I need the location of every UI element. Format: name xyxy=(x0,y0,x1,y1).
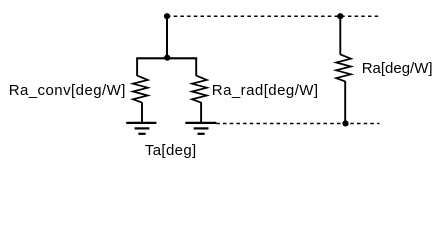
resistor Ra xyxy=(336,54,351,81)
ground (left, under Ra_conv) xyxy=(126,123,156,134)
wire: middle branch bottom lead xyxy=(200,102,202,123)
node A (top left junction dot) xyxy=(164,13,170,19)
node: junction dot on parallel bar xyxy=(164,55,170,61)
wire: horizontal parallel bar xyxy=(136,57,197,59)
ground (middle, under Ra_rad) xyxy=(185,123,216,134)
wire: vertical from node A down to parallel bar xyxy=(166,16,168,58)
svg-text:Ra[deg/W]: Ra[deg/W] xyxy=(362,60,433,77)
resistor Ra_rad xyxy=(192,76,207,103)
wire: right branch bottom lead xyxy=(344,81,346,123)
wire: right branch top lead from node B xyxy=(339,16,341,55)
wire: left branch bottom lead xyxy=(141,102,143,123)
node B (top right junction dot) xyxy=(337,13,343,19)
svg-text:Ta[deg]: Ta[deg] xyxy=(145,142,197,159)
wire: top dashed net from node A to right edge xyxy=(167,15,380,17)
node C (bottom right junction dot) xyxy=(342,120,348,126)
wire: middle branch top lead xyxy=(195,58,197,76)
wire: bottom dashed net from middle ground to right edge xyxy=(216,122,379,124)
svg-text:Ra_rad[deg/W]: Ra_rad[deg/W] xyxy=(212,82,319,99)
resistor Ra_conv xyxy=(133,76,148,103)
wire: left branch top lead xyxy=(136,58,138,76)
svg-text:Ra_conv[deg/W]: Ra_conv[deg/W] xyxy=(9,82,126,99)
